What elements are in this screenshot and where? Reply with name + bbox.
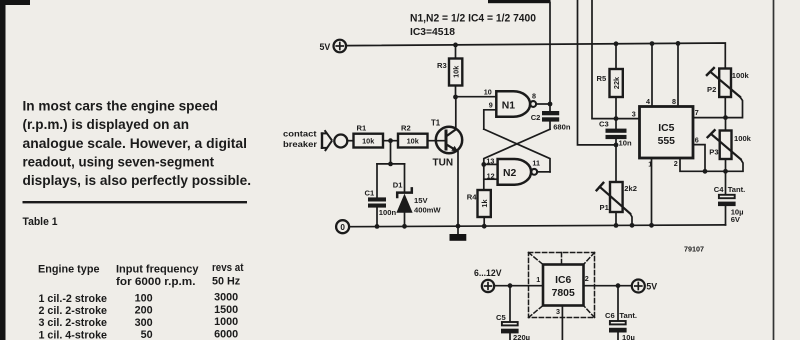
potentiometer P2 <box>707 68 743 118</box>
svg-text:10k: 10k <box>451 65 460 78</box>
junction N2 inputs <box>481 162 486 167</box>
resistor R2 <box>398 134 428 148</box>
R4 labels <box>467 192 489 207</box>
svg-text:3000: 3000 <box>214 292 238 304</box>
junction pin7 / P2 / P3 <box>723 115 728 120</box>
wire base node down <box>390 141 392 164</box>
C3 labels <box>599 119 632 147</box>
junction C5 <box>508 283 513 288</box>
wire N2 pin 12 <box>484 178 498 180</box>
horizontal rule under paragraph <box>23 201 248 203</box>
feedback wire N1 pin9 to N2 output <box>484 129 550 172</box>
T1 / TUN labels <box>431 118 453 168</box>
IC6 labels <box>536 274 589 316</box>
svg-text:N1: N1 <box>502 100 516 111</box>
svg-text:680n: 680n <box>553 123 571 132</box>
wire input to IC6 pin 1 <box>494 285 543 287</box>
svg-text:10k: 10k <box>362 137 375 146</box>
6...12V label <box>474 268 502 278</box>
junction C3 bottom <box>614 143 619 148</box>
table header row <box>38 262 244 288</box>
svg-text:Tant.: Tant. <box>619 311 637 320</box>
svg-text:7805: 7805 <box>552 288 575 299</box>
transistor T1 <box>436 127 462 153</box>
input terminal circle <box>334 135 347 148</box>
svg-text:2k2: 2k2 <box>624 184 637 193</box>
svg-text:C6: C6 <box>605 311 615 320</box>
svg-text:50 Hz: 50 Hz <box>212 276 241 288</box>
svg-text:1 cil.-2 stroke: 1 cil.-2 stroke <box>39 293 108 305</box>
junction R3 / collector / N1 pin 10 <box>453 95 458 100</box>
wire input to R1 <box>347 140 353 142</box>
5V output terminal <box>632 280 645 293</box>
D1 labels <box>393 180 442 214</box>
wire 555 pin 2 <box>680 158 726 171</box>
svg-text:Engine type: Engine type <box>38 264 100 276</box>
wire C3 bottom to P1 <box>615 145 617 182</box>
junction R5 / 5V rail <box>614 41 619 46</box>
svg-text:200: 200 <box>135 305 153 317</box>
C5 labels <box>496 313 530 340</box>
C6 labels <box>605 311 637 340</box>
wire R1 to R2 <box>383 140 398 142</box>
wire 555 pin 1 <box>651 158 653 225</box>
wire: 5V rail <box>346 43 725 69</box>
regulator IC6 7805 <box>543 265 584 306</box>
wire N2 pin 13 <box>484 163 498 165</box>
svg-text:3 cil. 2-stroke: 3 cil. 2-stroke <box>39 317 108 329</box>
ground bar <box>450 226 467 241</box>
svg-text:P3: P3 <box>709 148 718 157</box>
svg-text:D1: D1 <box>393 180 403 189</box>
svg-text:9: 9 <box>489 101 493 110</box>
junction pin8 / 5V rail <box>676 41 681 46</box>
junction pin1 / 0 rail <box>649 223 654 228</box>
C2 labels <box>531 113 571 132</box>
wire N1 pin 10 <box>456 96 497 98</box>
wire N1 output <box>536 103 550 105</box>
svg-text:10: 10 <box>484 87 492 96</box>
svg-text:10n: 10n <box>619 139 632 148</box>
IC5 labels <box>632 97 699 169</box>
svg-text:22k: 22k <box>612 76 621 89</box>
P1 labels <box>600 184 637 212</box>
P2 labels <box>707 71 749 94</box>
R5 labels <box>597 74 621 89</box>
capacitor C2 <box>542 104 559 129</box>
IC6 dashed outline <box>529 253 595 318</box>
svg-text:11: 11 <box>532 158 540 167</box>
wire R2 to T1 base <box>428 140 445 142</box>
svg-text:2 cil. 2-stroke: 2 cil. 2-stroke <box>39 305 108 317</box>
junction D1 / 0 rail <box>402 224 407 229</box>
resistor R4 <box>478 164 491 226</box>
svg-text:8: 8 <box>672 97 676 106</box>
svg-text:220µ: 220µ <box>513 333 530 340</box>
wire 555 pin 6 <box>693 145 705 172</box>
svg-text:Input frequency: Input frequency <box>116 264 199 276</box>
svg-text:10k: 10k <box>407 137 420 146</box>
svg-text:C3: C3 <box>599 119 609 128</box>
wire IC6 pin 2 to output <box>584 285 632 287</box>
input arrow symbol <box>321 130 332 151</box>
R3 labels <box>437 61 460 78</box>
resistor R1 <box>354 134 384 148</box>
svg-text:C2: C2 <box>531 113 541 122</box>
svg-text:N1,N2 = 1/2 IC4 = 1/2 7400: N1,N2 = 1/2 IC4 = 1/2 7400 <box>410 13 536 25</box>
wire 555 pin 4 <box>651 44 653 107</box>
svg-text:3: 3 <box>556 307 560 316</box>
svg-text:50: 50 <box>141 329 153 340</box>
svg-text:3: 3 <box>632 109 636 118</box>
N1 labels <box>484 87 536 111</box>
wire IC6 pin 3 down <box>561 306 563 340</box>
svg-text:8: 8 <box>532 92 536 101</box>
svg-text:300: 300 <box>135 317 153 329</box>
feedback wire C2 bottom to N2 inputs <box>484 129 550 164</box>
svg-text:(r.p.m.) is displayed on an: (r.p.m.) is displayed on an <box>23 117 190 132</box>
C1 labels <box>365 188 397 217</box>
svg-text:1500: 1500 <box>214 304 238 316</box>
5V label <box>320 42 331 52</box>
zener diode D1 <box>396 164 412 226</box>
svg-text:6000: 6000 <box>214 328 238 340</box>
svg-text:TUN: TUN <box>433 158 454 169</box>
wire 555 pin 8 <box>677 43 679 106</box>
svg-text:15V: 15V <box>414 196 428 205</box>
junction emitter / 0 rail <box>456 224 461 229</box>
resistor R3 <box>449 45 462 97</box>
junction pin6 / pin2 wire <box>703 169 708 174</box>
svg-text:displays, is also perfectly po: displays, is also perfectly possible. <box>23 173 251 188</box>
junction base node <box>388 138 393 143</box>
intro paragraph <box>23 99 251 188</box>
svg-text:C5: C5 <box>496 313 506 322</box>
junction pin4 / 5V rail <box>650 41 655 46</box>
wire emitter down to 0 rail <box>457 152 459 227</box>
svg-text:2: 2 <box>674 159 678 168</box>
svg-text:100n: 100n <box>379 208 397 217</box>
svg-text:1: 1 <box>536 275 540 284</box>
svg-text:IC6: IC6 <box>555 275 571 286</box>
svg-text:7: 7 <box>695 108 699 117</box>
junction R4 / 0 rail <box>482 224 487 229</box>
wire 555 output pin 3 (off page top) <box>592 0 640 119</box>
capacitor C5 <box>501 286 519 340</box>
junction N1 output / C2 <box>548 102 553 107</box>
svg-text:5V: 5V <box>646 282 657 292</box>
top-left crop bar <box>0 0 30 5</box>
wire N2 output <box>537 171 550 173</box>
R2 labels <box>401 123 420 145</box>
5V output label <box>646 282 657 292</box>
svg-text:100: 100 <box>135 292 153 304</box>
capacitor C4 (tantalum) <box>718 171 736 225</box>
junction P3 bottom / C4 <box>723 169 728 174</box>
svg-text:100k: 100k <box>732 71 750 80</box>
capacitor C6 (tantalum) <box>609 286 627 340</box>
svg-text:C4: C4 <box>714 185 724 194</box>
Table 1 heading <box>23 216 58 228</box>
junction 5V rail / R3 <box>453 43 458 48</box>
svg-text:79107: 79107 <box>684 244 704 253</box>
svg-text:10µ: 10µ <box>622 333 635 340</box>
wire C1-D1 horizontal <box>377 163 405 165</box>
svg-text:Table 1: Table 1 <box>23 216 58 228</box>
resistor R5 <box>610 44 623 119</box>
wire 555 pin 7 <box>693 117 726 119</box>
NAND gate N2 <box>498 159 537 185</box>
NAND gate N1 <box>496 91 536 117</box>
junction C1 / 0 rail <box>375 224 380 229</box>
svg-text:for 6000 r.p.m.: for 6000 r.p.m. <box>116 276 196 288</box>
svg-text:0: 0 <box>340 223 345 232</box>
junction C6 <box>616 283 621 288</box>
junction P1 / 0 rail <box>614 223 619 228</box>
wire to counter (C3 bottom node, off page top) <box>578 0 617 145</box>
svg-text:555: 555 <box>658 136 676 147</box>
svg-text:IC3=4518: IC3=4518 <box>410 27 455 38</box>
svg-text:C1: C1 <box>365 188 375 197</box>
svg-text:In most cars the engine speed: In most cars the engine speed <box>23 99 219 114</box>
svg-text:breaker: breaker <box>283 139 318 149</box>
svg-text:5V: 5V <box>320 42 331 52</box>
potentiometer P3 <box>708 118 743 172</box>
svg-text:1000: 1000 <box>214 316 238 328</box>
svg-text:R3: R3 <box>437 61 447 70</box>
junction P1 wiper / 0 rail <box>630 223 635 228</box>
svg-text:IC5: IC5 <box>658 123 674 134</box>
5V supply terminal <box>334 40 347 53</box>
wire from top edge down to N1 output <box>549 3 551 105</box>
junction R5 / C3 / pin3 <box>614 116 619 121</box>
svg-text:1k: 1k <box>480 199 489 208</box>
svg-text:2: 2 <box>585 274 589 283</box>
IC5 555 <box>640 107 694 159</box>
svg-text:1 cil. 4-stroke: 1 cil. 4-stroke <box>39 330 108 340</box>
N2 labels <box>486 156 540 180</box>
svg-text:contact: contact <box>283 129 317 139</box>
svg-text:R1: R1 <box>357 123 367 132</box>
table data rows <box>39 292 239 340</box>
svg-text:6...12V: 6...12V <box>474 268 502 278</box>
C4 labels <box>714 185 745 224</box>
svg-text:4: 4 <box>646 97 650 106</box>
figure number 79107 <box>684 244 704 253</box>
svg-text:revs at: revs at <box>212 262 244 274</box>
svg-text:6: 6 <box>695 136 699 145</box>
svg-text:T1: T1 <box>431 118 441 127</box>
R1 labels <box>357 123 376 145</box>
capacitor C1 <box>368 164 386 226</box>
svg-text:N2: N2 <box>503 168 517 179</box>
svg-text:analogue scale. However, a dig: analogue scale. However, a digital <box>23 136 248 151</box>
wire: 0 rail <box>349 225 725 227</box>
svg-text:readout, using seven-segment: readout, using seven-segment <box>23 154 215 169</box>
contact breaker label <box>283 129 318 149</box>
svg-text:R4: R4 <box>467 192 477 201</box>
svg-text:R2: R2 <box>401 123 411 132</box>
note: gate identities <box>410 13 536 39</box>
svg-text:P2: P2 <box>707 85 716 94</box>
potentiometer P1 <box>597 182 632 225</box>
left page edge bar <box>0 0 6 340</box>
supply input terminal <box>482 280 494 292</box>
svg-text:P1: P1 <box>600 203 610 212</box>
wire collector to junction <box>455 97 457 129</box>
svg-text:6V: 6V <box>731 215 741 224</box>
wire N1 pin 9 <box>484 110 497 129</box>
capacitor C3 <box>606 119 627 145</box>
top bar above schematic <box>488 0 551 3</box>
svg-text:100k: 100k <box>734 134 752 143</box>
svg-text:Tant.: Tant. <box>728 185 746 194</box>
0 terminal <box>336 220 349 233</box>
P3 labels <box>709 134 751 157</box>
svg-text:400mW: 400mW <box>414 206 441 215</box>
svg-text:R5: R5 <box>597 74 607 83</box>
right column divider rule <box>773 0 775 340</box>
junction base/C1/D1 <box>388 162 393 167</box>
